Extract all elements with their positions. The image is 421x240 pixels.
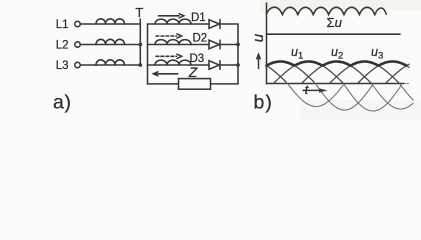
svg-text:u: u bbox=[250, 33, 267, 42]
svg-text:b): b) bbox=[254, 92, 273, 114]
svg-text:L2: L2 bbox=[56, 40, 69, 52]
cathode bus (right vertical) bbox=[237, 24, 239, 84]
junction dot primary bus row 2 bbox=[138, 43, 142, 47]
diode D2 cathode bar bbox=[219, 40, 221, 49]
wire diode D3 to cathode bus bbox=[220, 64, 238, 66]
svg-text:Σu: Σu bbox=[327, 15, 343, 30]
return current arrow (left) bbox=[154, 73, 178, 75]
primary star bus (core line) bbox=[139, 19, 141, 65]
diode D3 cathode bar bbox=[219, 61, 221, 70]
svg-text:a): a) bbox=[53, 92, 72, 114]
wire secondary bus to secondary winding 1 bbox=[148, 23, 156, 25]
svg-text:T: T bbox=[135, 5, 143, 20]
wire L3 to primary winding bbox=[80, 64, 96, 66]
svg-text:D2: D2 bbox=[193, 32, 208, 44]
thin half-sine arc 6 bbox=[358, 62, 410, 84]
wire secondary bus to secondary winding 2 bbox=[148, 44, 156, 46]
diode D2 bbox=[209, 40, 219, 49]
svg-text:u2: u2 bbox=[331, 45, 343, 61]
return wire bottom left bbox=[148, 83, 179, 85]
negative half-wave arc 5 bbox=[400, 84, 414, 101]
wire primary winding 1 to primary bus bbox=[125, 23, 141, 25]
wire secondary bus to secondary winding 3 bbox=[148, 64, 156, 66]
svg-text:u1: u1 bbox=[291, 45, 303, 61]
wire secondary winding 3 to diode D3 bbox=[191, 64, 209, 66]
thin half-sine arc 4 bbox=[302, 62, 372, 84]
transformer T primary winding 2 bbox=[96, 39, 125, 44]
negative half-wave arc 1 bbox=[288, 84, 344, 107]
thin half-sine arc 7 bbox=[386, 64, 410, 83]
svg-text:L3: L3 bbox=[56, 60, 69, 72]
load resistor Z bbox=[179, 79, 211, 90]
svg-text:L1: L1 bbox=[56, 19, 69, 31]
terminal circle L3 bbox=[75, 62, 80, 67]
wire diode D2 to cathode bus bbox=[220, 44, 238, 46]
voltage axis (vertical) panel b bbox=[266, 3, 268, 84]
thin half-sine arc 5 bbox=[330, 62, 400, 84]
svg-text:D1: D1 bbox=[191, 12, 206, 24]
transformer T primary winding 3 bbox=[96, 60, 125, 65]
thick rectified envelope bbox=[267, 62, 407, 66]
junction dot cathode bus row 2 bbox=[236, 43, 240, 47]
wire load to cathode bus bbox=[211, 83, 239, 85]
wire diode D1 to cathode bus bbox=[220, 23, 238, 25]
upper graph time axis bbox=[267, 33, 401, 35]
lower graph u-axis arrow bbox=[258, 59, 260, 69]
negative half-wave arc 4 bbox=[372, 84, 414, 110]
faint page bleed-through top right bbox=[260, 0, 421, 10]
secondary star bus bbox=[147, 24, 149, 84]
svg-text:Z: Z bbox=[188, 64, 198, 80]
diode D1 cathode bar bbox=[219, 20, 221, 29]
wire secondary winding 2 to diode D2 bbox=[191, 44, 209, 46]
wire secondary winding 1 to diode D1 bbox=[191, 23, 209, 25]
current arrow above secondary 2 (dashed) bbox=[156, 35, 177, 37]
terminal circle L2 bbox=[75, 42, 80, 47]
negative half-wave arc 2 bbox=[316, 84, 374, 111]
terminal circle L1 bbox=[75, 21, 80, 26]
time arrow on lower axis bbox=[303, 89, 320, 91]
svg-text:u3: u3 bbox=[371, 45, 383, 61]
wire L2 to primary winding bbox=[80, 44, 96, 46]
thin half-sine arc 3 bbox=[274, 62, 344, 84]
transformer secondary winding 1 bbox=[155, 19, 191, 24]
diode D1 bbox=[209, 20, 219, 29]
transformer secondary winding 3 bbox=[155, 60, 191, 65]
diode D3 bbox=[209, 61, 219, 70]
wire L1 to primary winding bbox=[80, 23, 96, 25]
current arrow above secondary 3 (dashed) bbox=[156, 55, 177, 57]
current arrow above secondary 1 (solid) bbox=[159, 15, 180, 17]
negative half-wave arc 3 bbox=[344, 84, 402, 112]
thin half-sine arc 1 bbox=[267, 66, 287, 83]
junction dot cathode bus row 3 bbox=[236, 63, 240, 67]
wire primary winding 3 to primary bus bbox=[125, 64, 141, 66]
transformer secondary winding 2 bbox=[155, 40, 191, 45]
thin half-sine arc 2 bbox=[267, 62, 315, 83]
wire primary winding 2 to primary bus bbox=[125, 44, 141, 46]
rectified output ripple curve bbox=[267, 7, 387, 14]
transformer T primary winding 1 bbox=[96, 19, 125, 24]
junction dot primary bus row 3 bbox=[138, 63, 142, 67]
lower graph time axis bbox=[267, 83, 405, 85]
